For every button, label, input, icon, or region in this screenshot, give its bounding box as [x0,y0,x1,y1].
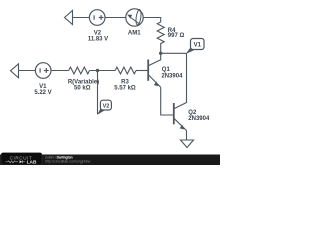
svg-text:V2: V2 [103,104,110,110]
svg-text:R(Variable): R(Variable) [68,79,99,85]
label R(Variable) [68,79,99,91]
svg-text:5.22 V: 5.22 V [34,90,51,96]
svg-text:LAB: LAB [27,160,37,166]
wire (Q2 emitter to ground) [186,131,188,141]
wire [105,17,126,19]
svg-text:11.83 V: 11.83 V [88,36,108,42]
wire [73,17,90,19]
wire [161,52,187,54]
wire (down to V2 flag) [97,71,99,115]
svg-text:http://circuitlab.com/c/gjrbbw: http://circuitlab.com/c/gjrbbw [45,159,91,163]
node flag V2 [97,100,111,115]
voltage source V1 [35,63,51,79]
watermark logo box [1,153,42,166]
wire [51,70,69,72]
node flag V1 [186,39,204,54]
watermark strip [0,155,220,166]
ammeter AM1 [126,9,143,26]
wire [143,18,161,23]
wire [90,70,116,72]
label V1 [34,84,51,96]
label R4 [168,28,185,39]
svg-text:Q1: Q1 [162,67,171,73]
svg-text:V1: V1 [194,43,202,49]
wire [19,70,36,72]
resistor R(Variable) [69,67,90,74]
svg-text:AM1: AM1 [128,30,141,36]
resistor R3 [115,67,136,74]
transistor Q1 [148,53,161,87]
ground (middle left, rotated) [11,64,19,78]
label R3 [114,79,136,91]
wire (right rail) [186,53,188,100]
svg-text:997 Ω: 997 Ω [168,33,185,39]
svg-text:5.57 kΩ: 5.57 kΩ [114,86,136,92]
watermark text [45,155,91,163]
wire (Q1 emitter to Q2 base) [161,87,174,115]
label Q2 [188,110,210,122]
ground (bottom) [181,140,194,148]
svg-text:2N3904: 2N3904 [188,116,210,122]
label Q1 [161,67,183,80]
transistor Q2 [174,100,187,131]
svg-text:2N3904: 2N3904 [161,74,183,80]
voltage source V2 [89,10,105,26]
label V2 [88,31,108,43]
junction node [96,69,99,72]
resistor R4 [157,22,164,53]
junction node [159,52,162,55]
wire [136,70,148,72]
ground (top left, rotated) [65,11,73,25]
svg-text:50 kΩ: 50 kΩ [74,86,91,92]
svg-text:R3: R3 [121,79,129,85]
